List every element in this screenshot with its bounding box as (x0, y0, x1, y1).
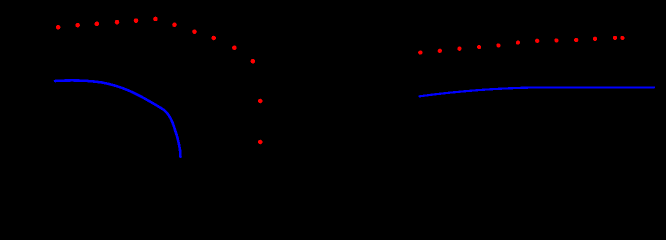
left plot: red markers (56, 17, 263, 145)
left plot: blue curve (55, 81, 181, 158)
right plot: red markers (418, 36, 624, 55)
right plot: blue curve (420, 87, 654, 96)
